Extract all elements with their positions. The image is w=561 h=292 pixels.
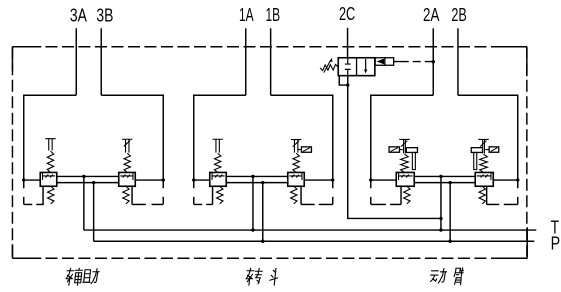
overload valve V1a (port 3A): spring (upper) bbox=[47, 151, 53, 172]
section 3: junction at right edge bbox=[516, 178, 519, 181]
junction below solenoid valve bbox=[346, 83, 349, 86]
section 1: junction at left edge bbox=[22, 178, 25, 181]
overload valve V2a (port 1A): adjustment screw symbol bbox=[212, 139, 222, 152]
pilot overload valve V3a (port 2A): adjustability arrow tick bbox=[401, 141, 407, 147]
caption character 转 bbox=[245, 268, 262, 285]
section 2: inlet wire from left edge bbox=[194, 179, 210, 181]
section 1: drop wire to P bus bbox=[93, 183, 95, 242]
pilot overload valve V3a (port 2A): internal poppet flow path bbox=[399, 172, 413, 180]
pilot overload valve V3b (port 2B): adjustment screw symbol bbox=[478, 139, 488, 153]
pilot overload valve V3a (port 2A): spring (lower) bbox=[404, 186, 410, 204]
section 2: upper gallery wire bbox=[226, 175, 288, 177]
port line 2A bbox=[432, 28, 434, 95]
section 3: junction at left edge bbox=[369, 178, 372, 181]
overload valve V2a (port 1A): internal poppet flow path bbox=[212, 172, 225, 180]
work section outline section 1 (auxiliary) bbox=[24, 95, 77, 180]
overload valve V1a (port 3A): internal poppet flow path bbox=[43, 172, 56, 180]
overload valve V1a (port 3A): drain stem to tank gallery bbox=[42, 186, 44, 204]
caption character 助 bbox=[83, 269, 100, 284]
section 3: drop wire to P bus bbox=[449, 183, 451, 242]
caption character 斗 bbox=[269, 268, 278, 285]
pilot overload valve V3a (port 2A): adjustment screw symbol bbox=[399, 139, 409, 153]
pilot overload valve V3a (port 2A): cartridge body bbox=[396, 172, 414, 186]
overload valve V1b (port 3B): spring (lower) bbox=[123, 186, 129, 204]
section 1: upper gallery wire bbox=[57, 175, 119, 177]
junction T bus / section 2 drop bbox=[251, 228, 254, 231]
overload valve V2a (port 1A): spring (lower) bbox=[217, 186, 223, 204]
port line 1A bbox=[245, 28, 247, 95]
pilot overload valve V2b (port 1B): spring (upper) bbox=[293, 153, 299, 172]
section 1: junction on lower gallery bbox=[92, 181, 95, 184]
overload valve V2a (port 1A): cartridge body bbox=[210, 172, 227, 186]
section 1: lower gallery wire bbox=[57, 182, 119, 184]
svg-text:1B: 1B bbox=[265, 4, 280, 25]
pilot overload valve V2b (port 1B): internal poppet flow path bbox=[289, 172, 302, 180]
section 3: junction on upper gallery bbox=[439, 175, 442, 178]
overload valve V1b (port 3B): cartridge body bbox=[119, 172, 136, 186]
pilot overload valve V2b (port 1B): pilot port block bbox=[301, 147, 311, 152]
pilot overload valve V3b (port 2B): drain stem to tank gallery bbox=[486, 186, 488, 204]
junction P bus / section 3 drop bbox=[448, 240, 451, 243]
junction of 2C wire with section-3 T drop bbox=[439, 217, 442, 220]
pilot overload valve V3a (port 2A): drain stem to tank gallery bbox=[400, 186, 402, 204]
port line 3B bbox=[100, 28, 102, 95]
P bus wire (pressure gallery) bbox=[94, 240, 535, 242]
section 3: lower gallery wire bbox=[414, 182, 475, 184]
overload valve V1b (port 3B): adjustment screw symbol bbox=[122, 139, 132, 152]
overload valve V2a (port 1A): drain stem to tank gallery bbox=[212, 186, 214, 204]
port line 3A bbox=[75, 28, 77, 95]
port line 2B bbox=[457, 28, 459, 95]
valve assembly enclosure (dashed outline) bbox=[12, 47, 527, 259]
svg-text:3B: 3B bbox=[96, 4, 113, 25]
caption character 臂 bbox=[453, 268, 463, 285]
caption character 辅 bbox=[65, 268, 82, 285]
overload valve V1a (port 3A): spring (lower) bbox=[48, 186, 54, 204]
svg-text:P: P bbox=[551, 233, 561, 254]
pilot drain wire 2C down between sections bbox=[348, 85, 441, 218]
junction T bus / section 3 drop bbox=[439, 228, 442, 231]
section 2: lower gallery wire bbox=[226, 182, 288, 184]
section 1: outlet wire to right edge bbox=[135, 179, 163, 181]
overload valve V1b (port 3B): adjustability arrow tick bbox=[124, 140, 130, 146]
caption character 动 bbox=[430, 268, 447, 283]
solenoid valve: blocked position symbols bbox=[345, 58, 351, 76]
section 2: junction on upper gallery bbox=[251, 175, 254, 178]
pilot overload valve V2b (port 1B): spring (lower) bbox=[291, 186, 297, 204]
pilot overload valve V3b (port 2B): unloading piston bbox=[471, 148, 482, 153]
pilot overload valve V3a (port 2A): unloading piston bbox=[406, 148, 417, 153]
svg-text:1A: 1A bbox=[239, 4, 254, 25]
section 2: junction on lower gallery bbox=[261, 181, 264, 184]
solenoid valve: adjustment arrow through spring bbox=[324, 60, 331, 73]
port line 2C (pilot supply to solenoid valve) bbox=[347, 28, 349, 58]
T bus wire (tank gallery) bbox=[84, 229, 536, 231]
pilot overload valve V3b (port 2B): spring (upper) bbox=[480, 154, 488, 172]
section 3: upper gallery wire bbox=[414, 175, 475, 177]
solenoid pilot valve Y1 (2-position 2-way) body bbox=[338, 58, 375, 76]
pilot sensing line (dashed) to port 2A bbox=[394, 61, 401, 63]
section 2: drop wire to T bus bbox=[252, 176, 254, 230]
junction on port line 2A bbox=[432, 60, 435, 63]
section 1: junction on upper gallery bbox=[82, 175, 85, 178]
section 1: junction at right edge bbox=[162, 178, 165, 181]
overload valve V1b (port 3B): internal poppet flow path bbox=[120, 172, 133, 180]
section 2: junction at left edge bbox=[192, 178, 195, 181]
section 3: outlet wire to right edge bbox=[493, 179, 518, 181]
section 2: outlet wire to right edge bbox=[304, 179, 333, 181]
svg-text:2A: 2A bbox=[423, 4, 440, 25]
pilot overload valve V3a (port 2A): pilot port block bbox=[389, 147, 399, 152]
svg-text:2B: 2B bbox=[451, 4, 466, 25]
work section outline section 3 (boom) bbox=[371, 95, 434, 180]
svg-text:2C: 2C bbox=[339, 3, 355, 24]
junction P bus / section 2 drop bbox=[261, 240, 264, 243]
pilot overload valve V2b (port 1B): adjustment screw symbol bbox=[291, 140, 301, 153]
pilot overload valve V2b (port 1B): cartridge body bbox=[288, 172, 305, 186]
pilot overload valve V3b (port 2B): internal poppet flow path bbox=[477, 172, 491, 180]
work section outline section 2 (bucket) bbox=[194, 95, 246, 180]
solenoid valve: pilot actuator box bbox=[375, 58, 394, 66]
section 3: junction on lower gallery bbox=[448, 181, 451, 184]
section 3: inlet wire from left edge bbox=[371, 179, 397, 181]
port line 1B bbox=[270, 28, 272, 95]
solenoid valve: return spring (adjustable) bbox=[320, 64, 338, 70]
solenoid valve: actuator filled arrow bbox=[376, 59, 384, 65]
section 1: drop wire to T bus bbox=[83, 176, 85, 230]
overload valve V1a (port 3A): adjustment screw symbol bbox=[45, 139, 55, 151]
section 2: junction at right edge bbox=[331, 178, 334, 181]
pilot overload valve V3b (port 2B): adjustability arrow tick bbox=[480, 141, 486, 147]
solenoid valve: flow arrow position bbox=[365, 59, 367, 70]
pilot overload valve V3b (port 2B): pilot port block bbox=[489, 147, 499, 152]
overload valve V1b (port 3B): drain stem to tank gallery bbox=[131, 186, 133, 204]
section 1: inlet wire from left edge bbox=[24, 179, 41, 181]
svg-text:3A: 3A bbox=[70, 4, 87, 25]
pilot overload valve V3a (port 2A): spring (upper) bbox=[401, 154, 409, 172]
pilot overload valve V3b (port 2B): spring (lower) bbox=[479, 186, 485, 204]
pilot overload valve V2b (port 1B): adjustability arrow tick bbox=[293, 141, 299, 147]
pilot overload valve V3b (port 2B): cartridge body bbox=[475, 172, 493, 186]
section 3: drop wire to T bus bbox=[440, 176, 442, 230]
solenoid valve: outlet elbow wire bbox=[339, 76, 348, 85]
overload valve V1a (port 3A): cartridge body bbox=[40, 172, 57, 186]
overload valve V1b (port 3B): spring (upper) bbox=[124, 153, 130, 172]
overload valve V2a (port 1A): spring (upper) bbox=[214, 153, 220, 172]
section 2: drop wire to P bus bbox=[262, 183, 264, 242]
pilot overload valve V2b (port 1B): drain stem to tank gallery bbox=[300, 186, 302, 204]
